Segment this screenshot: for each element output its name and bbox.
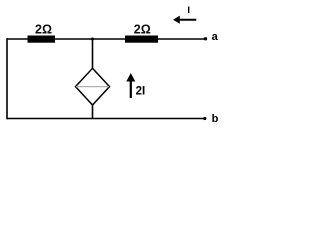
svg-text:b: b bbox=[212, 113, 219, 125]
wire: top rail left segment bbox=[7, 38, 28, 40]
arrow 2I (pointing up) bbox=[126, 73, 135, 98]
resistor R1 (2 ohm) bbox=[28, 36, 56, 43]
svg-text:2Ω: 2Ω bbox=[134, 23, 151, 37]
dependent current source (diamond) bbox=[76, 68, 110, 105]
svg-text:a: a bbox=[212, 31, 219, 43]
svg-text:2I: 2I bbox=[136, 85, 146, 97]
wire: left vertical bbox=[6, 38, 8, 119]
gray line inside diamond bbox=[76, 86, 109, 88]
svg-text:I: I bbox=[187, 5, 190, 16]
node junction: middle branch on top rail bbox=[91, 38, 94, 41]
wire: middle branch lower bbox=[92, 105, 94, 119]
terminal dot b bbox=[203, 117, 206, 120]
wire: bottom rail to terminal b bbox=[7, 118, 204, 120]
terminal dot a bbox=[204, 37, 207, 40]
wire: top rail right segment to terminal a bbox=[158, 38, 205, 40]
resistor R2 (2 ohm) bbox=[125, 36, 158, 43]
wire: top rail middle segment bbox=[55, 38, 125, 40]
current arrow I (pointing left) bbox=[173, 16, 196, 24]
svg-text:2Ω: 2Ω bbox=[35, 23, 52, 37]
wire: middle branch upper bbox=[92, 39, 94, 69]
